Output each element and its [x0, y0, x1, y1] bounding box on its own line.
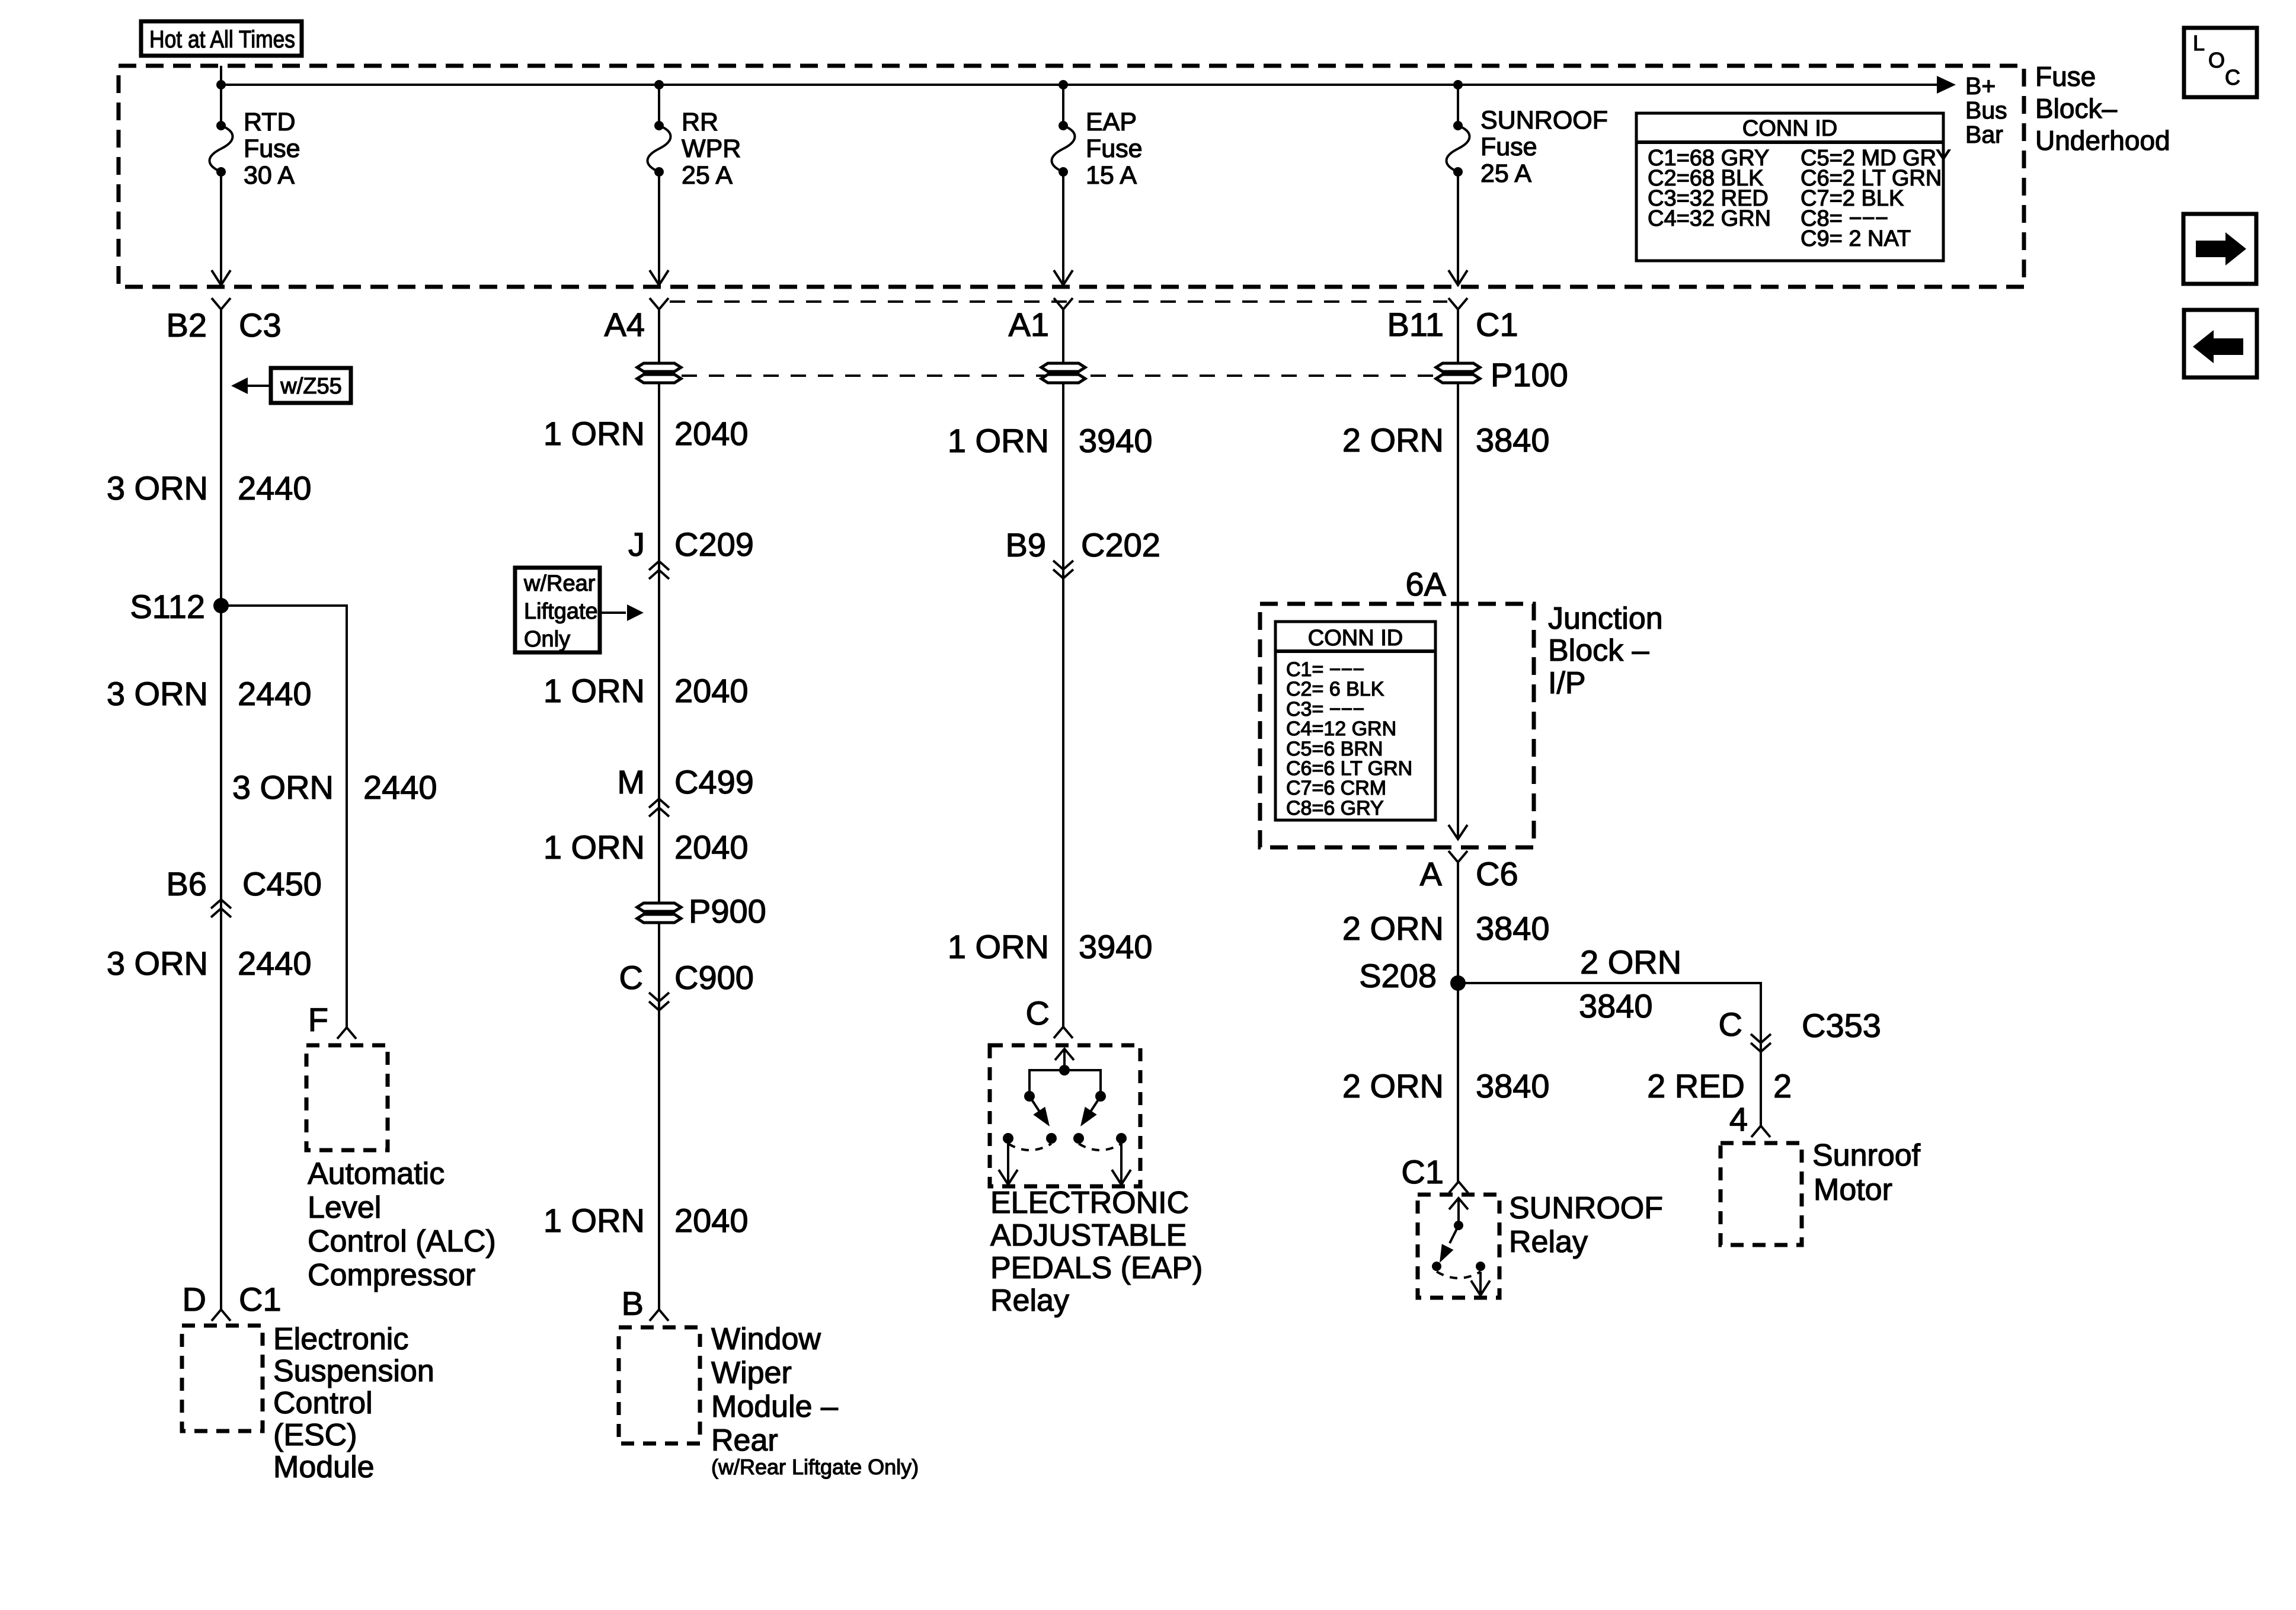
- svg-text:Control (ALC): Control (ALC): [308, 1224, 496, 1259]
- svg-text:Fuse: Fuse: [1086, 135, 1143, 163]
- component box EAP relay: [990, 1045, 1140, 1186]
- svg-text:2040: 2040: [674, 828, 749, 866]
- svg-text:3 ORN: 3 ORN: [107, 945, 208, 982]
- svg-text:Fuse: Fuse: [1480, 133, 1537, 161]
- svg-text:B9: B9: [1006, 526, 1047, 564]
- wire col1 down to ESC: [220, 309, 222, 1310]
- svg-text:Window: Window: [711, 1322, 821, 1356]
- svg-text:WPR: WPR: [682, 135, 741, 163]
- wire col2 C209 to C499: [658, 561, 660, 807]
- svg-text:2440: 2440: [238, 945, 312, 982]
- label Sunroof Motor: [1812, 1138, 1921, 1207]
- inline connector col3: [1041, 363, 1085, 383]
- connector C202 pin B9: [1006, 526, 1160, 578]
- svg-text:15 A: 15 A: [1086, 161, 1137, 190]
- svg-text:ADJUSTABLE: ADJUSTABLE: [990, 1218, 1187, 1253]
- svg-text:2 ORN: 2 ORN: [1342, 1067, 1444, 1105]
- svg-text:3940: 3940: [1079, 422, 1153, 459]
- sunroof relay contacts: [1432, 1262, 1485, 1271]
- svg-text:C2= 6 BLK: C2= 6 BLK: [1286, 678, 1384, 700]
- svg-text:w/Rear: w/Rear: [523, 571, 596, 596]
- CONN ID table fuse block: [1636, 113, 1951, 261]
- sunroof relay internal feed arrow: [1449, 1198, 1468, 1230]
- pin C of EAP relay: [1026, 994, 1073, 1038]
- svg-text:3940: 3940: [1079, 928, 1153, 965]
- svg-text:1 ORN: 1 ORN: [948, 422, 1049, 459]
- svg-text:C209: C209: [674, 526, 754, 563]
- svg-text:Hot at All Times: Hot at All Times: [149, 25, 295, 53]
- junction block wire arrow: [1448, 825, 1467, 839]
- svg-text:Module: Module: [273, 1450, 375, 1484]
- svg-text:C8=6 GRY: C8=6 GRY: [1286, 797, 1384, 820]
- svg-text:3840: 3840: [1476, 1067, 1550, 1105]
- wire label 3 ORN 2440: [107, 675, 312, 712]
- pin D connector C1 of ESC: [183, 1281, 282, 1321]
- fuse RTD 30A: [210, 108, 300, 190]
- icon LOC box: [2184, 28, 2257, 97]
- svg-text:S208: S208: [1359, 957, 1437, 994]
- wire label 2 ORN 3840: [1342, 421, 1550, 459]
- svg-text:3 ORN: 3 ORN: [232, 769, 334, 806]
- wire EAP fuse to border: [1054, 172, 1073, 285]
- inline connector P900: [637, 892, 766, 930]
- svg-text:L: L: [2193, 31, 2205, 55]
- svg-text:Suspension: Suspension: [273, 1354, 434, 1388]
- svg-text:30 A: 30 A: [244, 161, 295, 190]
- svg-text:2 ORN: 2 ORN: [1580, 943, 1681, 981]
- svg-text:Rear: Rear: [711, 1423, 778, 1458]
- wire col4 B11 down: [1457, 309, 1459, 838]
- label box w/Rear Liftgate Only with arrow: [515, 568, 644, 652]
- connector pin A4: [605, 298, 669, 343]
- svg-text:1 ORN: 1 ORN: [948, 928, 1049, 965]
- wire col4 C6 down to relay: [1457, 862, 1459, 1182]
- svg-text:O: O: [2208, 48, 2225, 72]
- svg-text:3 ORN: 3 ORN: [107, 675, 208, 712]
- svg-text:RR: RR: [682, 108, 718, 136]
- svg-text:Level: Level: [308, 1190, 381, 1225]
- harness dashed link P100 level: [682, 375, 1434, 377]
- svg-text:I/P: I/P: [1548, 666, 1586, 700]
- svg-text:Automatic: Automatic: [308, 1157, 445, 1191]
- svg-text:B+: B+: [1965, 72, 1996, 100]
- svg-text:3840: 3840: [1476, 421, 1550, 459]
- svg-text:C353: C353: [1802, 1007, 1881, 1044]
- wire stub col3: [1062, 85, 1064, 126]
- wire branch S208 to sunroof motor: [1458, 983, 1761, 1126]
- svg-text:Relay: Relay: [990, 1283, 1069, 1318]
- icon arrow left box: [2184, 310, 2257, 377]
- wire label 2 RED 2: [1647, 1067, 1792, 1105]
- svg-text:w/Z55: w/Z55: [280, 374, 341, 399]
- svg-text:Relay: Relay: [1509, 1225, 1588, 1259]
- svg-text:C7=6 CRM: C7=6 CRM: [1286, 777, 1386, 799]
- EAP relay internal feed arrow: [1055, 1049, 1074, 1076]
- svg-text:B6: B6: [167, 865, 207, 902]
- svg-text:A: A: [1420, 855, 1443, 892]
- svg-text:C4=32 GRN: C4=32 GRN: [1648, 206, 1771, 231]
- label box: Hot at All Times: [141, 21, 302, 56]
- svg-text:ELECTRONIC: ELECTRONIC: [990, 1186, 1189, 1220]
- connector C6 pin A: [1420, 851, 1518, 892]
- svg-text:2440: 2440: [363, 769, 437, 806]
- svg-text:Wiper: Wiper: [711, 1356, 792, 1390]
- wire stub col4: [1457, 85, 1459, 126]
- svg-text:Bar: Bar: [1965, 121, 2003, 148]
- pin B of wiper module: [622, 1285, 669, 1322]
- EAP relay switch arm left: [1029, 1096, 1050, 1126]
- svg-text:Liftgate: Liftgate: [524, 599, 598, 624]
- wire label 3 ORN 2440: [107, 469, 312, 507]
- connector pin A1: [1009, 298, 1073, 343]
- component box ESC module: [182, 1326, 263, 1431]
- wire branch S112 to ALC: [221, 606, 347, 1028]
- component box sunroof motor: [1721, 1143, 1802, 1245]
- fuse EAP 15A: [1052, 108, 1143, 190]
- svg-text:RTD: RTD: [244, 108, 296, 136]
- wire label 1 ORN 2040: [543, 672, 749, 709]
- node junction col1: [216, 80, 226, 89]
- EAP relay output arrow left: [999, 1144, 1018, 1185]
- wire col2 A4 to C209: [658, 309, 660, 569]
- connector C209 pin J: [628, 526, 754, 579]
- svg-text:C202: C202: [1081, 526, 1160, 564]
- node junction col4: [1453, 80, 1463, 89]
- svg-text:2040: 2040: [674, 415, 749, 452]
- pin C1 of sunroof relay: [1401, 1153, 1468, 1193]
- wire col3 C202 to EAP relay: [1062, 569, 1064, 1027]
- fuse SUNROOF 25A: [1447, 106, 1609, 188]
- svg-text:(w/Rear Liftgate Only): (w/Rear Liftgate Only): [711, 1455, 919, 1479]
- wire label 1 ORN 3940: [948, 422, 1153, 459]
- connector C499 pin M: [617, 763, 754, 817]
- wire label 1 ORN 2040: [543, 415, 749, 452]
- wire label 3 ORN 2440: [107, 945, 312, 982]
- B+ bus bar wire: [221, 76, 1956, 94]
- svg-text:C1: C1: [1476, 306, 1518, 343]
- svg-text:Bus: Bus: [1965, 97, 2007, 124]
- label Automatic Level Control (ALC) Compressor: [308, 1157, 496, 1292]
- svg-text:M: M: [617, 763, 645, 801]
- svg-text:C450: C450: [242, 865, 322, 902]
- svg-text:Block –: Block –: [1548, 633, 1649, 668]
- EAP relay output arrow right: [1112, 1144, 1131, 1185]
- wire label 1 ORN 2040: [543, 828, 749, 866]
- EAP relay internal coil rails: [1024, 1070, 1106, 1102]
- svg-text:25 A: 25 A: [682, 161, 733, 190]
- component box ALC compressor: [306, 1045, 388, 1150]
- svg-text:Sunroof: Sunroof: [1812, 1138, 1921, 1173]
- svg-text:1 ORN: 1 ORN: [543, 415, 645, 452]
- svg-text:C4=12 GRN: C4=12 GRN: [1286, 718, 1396, 740]
- svg-text:3840: 3840: [1579, 987, 1653, 1025]
- svg-text:Junction: Junction: [1548, 601, 1663, 636]
- fuse RR WPR 25A: [648, 108, 741, 190]
- svg-text:S112: S112: [130, 588, 205, 625]
- svg-text:B2: B2: [167, 306, 207, 344]
- component box window wiper module rear: [619, 1327, 700, 1443]
- wire SUNROOF fuse to border: [1448, 172, 1467, 285]
- svg-text:3 ORN: 3 ORN: [107, 469, 208, 507]
- svg-text:C: C: [619, 959, 643, 996]
- svg-text:PEDALS (EAP): PEDALS (EAP): [990, 1251, 1203, 1285]
- EAP relay switch arm right: [1080, 1096, 1101, 1126]
- sunroof relay output arrow: [1471, 1272, 1490, 1295]
- svg-text:D: D: [183, 1281, 206, 1318]
- svg-text:Motor: Motor: [1814, 1173, 1892, 1207]
- EAP relay dashed throw arcs: [1008, 1144, 1121, 1150]
- svg-text:CONN ID: CONN ID: [1308, 626, 1403, 651]
- svg-text:C1: C1: [1401, 1153, 1444, 1190]
- svg-text:C1: C1: [239, 1281, 282, 1318]
- svg-text:SUNROOF: SUNROOF: [1480, 106, 1608, 135]
- label SUNROOF Relay: [1509, 1191, 1663, 1259]
- label Window Wiper Module Rear: [711, 1322, 919, 1479]
- svg-text:2440: 2440: [238, 469, 312, 507]
- label ELECTRONIC ADJUSTABLE PEDALS EAP Relay: [990, 1186, 1203, 1318]
- fuse block underhood dashed box: [119, 66, 2024, 287]
- svg-text:Underhood: Underhood: [2035, 125, 2170, 156]
- svg-text:6A: 6A: [1406, 565, 1447, 603]
- svg-text:Module –: Module –: [711, 1390, 838, 1424]
- svg-text:A4: A4: [605, 306, 645, 343]
- svg-text:1 ORN: 1 ORN: [543, 672, 645, 709]
- connector C900 pin C: [619, 959, 754, 1010]
- connector C450 pin B6: [167, 865, 322, 917]
- svg-text:2 RED: 2 RED: [1647, 1067, 1745, 1105]
- label Electronic Suspension Control (ESC) Module: [273, 1322, 434, 1484]
- wire col3 A1 down: [1062, 309, 1064, 569]
- inline connector col2: [637, 363, 681, 383]
- connector C353 pin C: [1719, 1006, 1881, 1052]
- svg-text:25 A: 25 A: [1480, 159, 1531, 188]
- svg-text:Fuse: Fuse: [244, 135, 300, 163]
- svg-text:C900: C900: [674, 959, 754, 996]
- pin 4 of sunroof motor: [1729, 1100, 1770, 1138]
- wire col2 C499 to P900: [658, 799, 660, 1310]
- EAP relay contacts: [1003, 1133, 1127, 1144]
- wire label 2 ORN 3840: [1342, 910, 1550, 947]
- svg-text:Compressor: Compressor: [308, 1258, 475, 1292]
- svg-text:1 ORN: 1 ORN: [543, 1202, 645, 1239]
- wire label 1 ORN 2040: [543, 1202, 749, 1239]
- svg-text:2440: 2440: [238, 675, 312, 712]
- svg-text:P900: P900: [689, 892, 766, 930]
- harness dashed link C200 level: [670, 300, 1447, 303]
- svg-text:Control: Control: [273, 1386, 373, 1420]
- label box w/Z55 with arrow: [231, 368, 351, 403]
- svg-text:2: 2: [1773, 1067, 1792, 1105]
- svg-text:3840: 3840: [1476, 910, 1550, 947]
- svg-text:A1: A1: [1009, 306, 1050, 343]
- svg-text:C6: C6: [1476, 855, 1518, 892]
- label Junction Block IP: [1548, 601, 1663, 700]
- svg-text:EAP: EAP: [1086, 108, 1137, 136]
- svg-text:B11: B11: [1387, 306, 1444, 343]
- connector C3 pin B2: [167, 298, 282, 344]
- svg-text:C: C: [2225, 65, 2240, 89]
- splice S112: [130, 588, 229, 625]
- svg-text:Only: Only: [524, 627, 570, 652]
- wire from border to RTD fuse: [220, 66, 222, 126]
- svg-text:SUNROOF: SUNROOF: [1509, 1191, 1663, 1225]
- wire stub col2: [658, 85, 660, 126]
- wire RR WPR fuse to border: [650, 172, 669, 285]
- icon arrow right box: [2183, 214, 2256, 284]
- wire RTD fuse to border: [212, 172, 231, 285]
- node junction col3: [1059, 80, 1068, 89]
- svg-text:B: B: [622, 1285, 644, 1322]
- sunroof relay dashed throw arc: [1437, 1272, 1480, 1278]
- junction block IP dashed box: [1260, 604, 1534, 847]
- pin F of ALC compressor: [308, 1001, 356, 1039]
- svg-text:J: J: [628, 526, 645, 563]
- svg-text:P100: P100: [1491, 356, 1568, 393]
- svg-text:CONN ID: CONN ID: [1742, 116, 1837, 141]
- svg-text:C: C: [1719, 1006, 1742, 1043]
- wire label branch 2 ORN 3840: [1579, 943, 1681, 1025]
- inline connector P100: [1436, 356, 1568, 393]
- svg-text:1 ORN: 1 ORN: [543, 828, 645, 866]
- wire label 1 ORN 3940: [948, 928, 1153, 965]
- svg-text:Electronic: Electronic: [273, 1322, 408, 1356]
- svg-text:C9= 2 NAT: C9= 2 NAT: [1801, 226, 1911, 251]
- svg-text:Block–: Block–: [2035, 93, 2117, 124]
- node junction col2: [654, 80, 664, 89]
- svg-text:2 ORN: 2 ORN: [1342, 421, 1444, 459]
- svg-text:(ESC): (ESC): [273, 1418, 357, 1452]
- label Fuse Block Underhood: [2035, 61, 2170, 156]
- wire label branch 3 ORN 2440: [232, 769, 437, 806]
- wire label 2 ORN 3840: [1342, 1067, 1550, 1105]
- svg-text:2040: 2040: [674, 672, 749, 709]
- splice S208: [1359, 957, 1466, 994]
- connector C1 pin B11: [1387, 298, 1518, 343]
- svg-text:2 ORN: 2 ORN: [1342, 910, 1444, 947]
- svg-text:C499: C499: [674, 763, 754, 801]
- svg-text:4: 4: [1729, 1100, 1748, 1138]
- svg-text:Fuse: Fuse: [2035, 61, 2096, 92]
- svg-text:2040: 2040: [674, 1202, 749, 1239]
- CONN ID table junction block: [1275, 622, 1435, 820]
- svg-text:C: C: [1026, 994, 1050, 1032]
- node B+ Bus Bar label: [1965, 72, 2007, 148]
- svg-text:C3: C3: [239, 306, 282, 344]
- svg-text:F: F: [308, 1001, 328, 1038]
- component box sunroof relay: [1418, 1195, 1499, 1298]
- sunroof relay switch arm: [1440, 1225, 1459, 1263]
